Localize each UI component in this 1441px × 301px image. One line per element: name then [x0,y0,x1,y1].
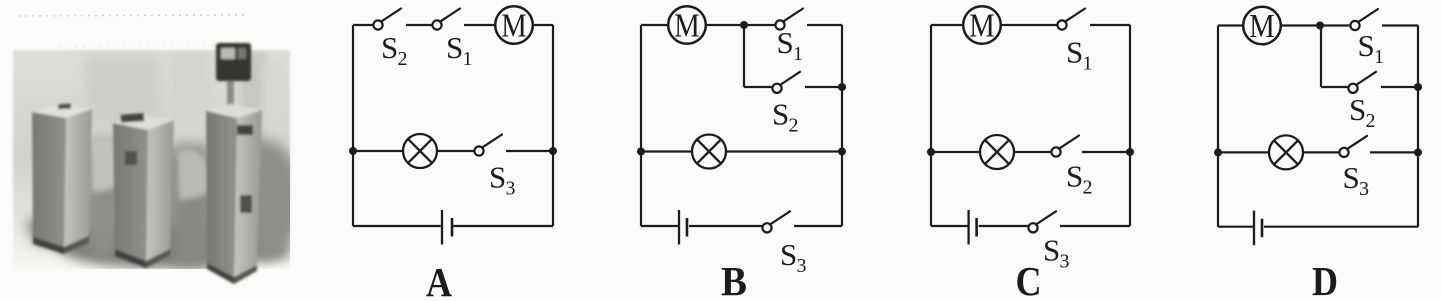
svg-text:S: S [489,160,506,195]
svg-text:D: D [1312,258,1338,301]
svg-text:S: S [1066,34,1083,69]
svg-text:A: A [426,259,452,301]
svg-text:S: S [772,97,789,132]
svg-text:2: 2 [1083,176,1093,198]
svg-text:C: C [1016,258,1042,301]
svg-text:S: S [777,25,794,60]
svg-text:S: S [446,30,463,65]
svg-text:M: M [969,8,995,45]
svg-text:3: 3 [1060,250,1070,272]
svg-text:S: S [1349,92,1366,127]
svg-text:S: S [780,237,797,272]
svg-text:2: 2 [398,48,408,70]
svg-text:1: 1 [793,43,803,65]
svg-text:B: B [721,258,747,301]
svg-text:1: 1 [1083,52,1093,74]
svg-text:S: S [1043,232,1060,267]
svg-text:S: S [1066,158,1083,193]
svg-text:1: 1 [463,48,473,70]
svg-text:2: 2 [789,115,799,137]
svg-text:3: 3 [506,178,516,200]
svg-text:S: S [381,30,398,65]
svg-text:1: 1 [1374,46,1384,68]
svg-text:2: 2 [1366,110,1376,132]
svg-text:3: 3 [797,255,807,277]
svg-text:S: S [1343,160,1360,195]
svg-text:S: S [1358,28,1375,63]
svg-text:M: M [501,8,527,45]
svg-text:M: M [1249,8,1275,45]
svg-text:M: M [674,8,700,45]
svg-text:3: 3 [1359,178,1369,200]
